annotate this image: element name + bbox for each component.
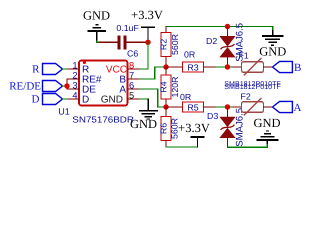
fuse F2 — [233, 91, 273, 115]
diode D2 TVS — [206, 23, 246, 65]
svg-text:F2: F2 — [241, 91, 251, 101]
node D2 top junction dot — [225, 24, 230, 29]
svg-text:0.1uF: 0.1uF — [116, 23, 139, 33]
svg-text:GND: GND — [130, 117, 157, 131]
node RE/DE junction dot — [64, 83, 69, 88]
wire top GND rail — [166, 26, 273, 28]
svg-text:120R: 120R — [170, 76, 180, 97]
pin 3 — [67, 81, 79, 91]
svg-text:0R: 0R — [180, 92, 191, 102]
pin 8 — [128, 61, 140, 71]
resistor R6 — [158, 107, 179, 147]
svg-text:5: 5 — [129, 91, 134, 101]
fuse F2 part number SMB1812P010TF (double print) — [224, 84, 280, 91]
svg-text:R6: R6 — [158, 123, 168, 134]
wire pin 5 to ground — [140, 98, 149, 100]
port RE/DE — [9, 81, 62, 93]
svg-text:B: B — [294, 62, 301, 74]
svg-text:2: 2 — [72, 71, 77, 81]
wire R5 to D3 node — [216, 106, 233, 108]
wire R6 to +3.3V bottom — [166, 146, 198, 148]
node B junction dot — [163, 64, 168, 69]
resistor R5 — [166, 92, 216, 112]
diode D3 TVS — [207, 107, 246, 147]
node +3.3V junction dot — [145, 40, 150, 45]
wire R3 to D2 node — [216, 66, 233, 68]
resistor R2 — [158, 27, 180, 65]
svg-text:1: 1 — [72, 61, 77, 71]
svg-text:SMAJ6.5: SMAJ6.5 — [235, 108, 246, 147]
svg-text:R: R — [32, 64, 40, 76]
node D3 top junction dot — [225, 104, 230, 109]
wire GND to C6 to +3.3V junction — [97, 41, 148, 42]
svg-text:GND: GND — [253, 116, 280, 130]
wire pin 6 to A line — [140, 89, 164, 107]
power +3.3V bottom symbol — [178, 121, 210, 147]
svg-text:D2: D2 — [206, 36, 217, 46]
svg-text:U1: U1 — [58, 106, 70, 116]
svg-text:4: 4 — [72, 91, 77, 101]
pin 2 — [67, 71, 79, 81]
op-amp U1 SN75176BDR body — [58, 61, 134, 125]
port A — [273, 101, 302, 113]
wire pin 7 to B line — [140, 67, 164, 79]
wire port R to pin 1 — [63, 68, 68, 70]
svg-text:8: 8 — [129, 61, 134, 71]
capacitor C6 — [116, 23, 139, 59]
svg-text:R3: R3 — [187, 63, 198, 73]
pin 7 — [128, 71, 140, 81]
svg-text:SMB1812P010TF: SMB1812P010TF — [224, 84, 280, 91]
wire port D to pin 4 — [63, 98, 68, 100]
node A junction dot — [163, 104, 168, 109]
wire VCC to pin 8 — [140, 42, 149, 69]
ground GND top-right — [259, 27, 286, 59]
svg-text:GND: GND — [259, 45, 286, 59]
svg-text:+3.3V: +3.3V — [178, 121, 210, 135]
svg-text:R2: R2 — [158, 39, 168, 50]
resistor R4 — [158, 67, 180, 107]
svg-text:SN75176BDR: SN75176BDR — [72, 115, 134, 125]
power +3.3V top symbol — [131, 8, 163, 43]
svg-text:D: D — [32, 94, 40, 106]
pin 4 — [67, 91, 79, 101]
wire port RE/DE to pins 2,3 — [63, 79, 68, 89]
port R — [32, 64, 62, 76]
port B — [273, 61, 302, 73]
node D2 bottom junction dot — [225, 64, 230, 69]
svg-text:R5: R5 — [187, 103, 198, 113]
svg-text:3: 3 — [72, 81, 77, 91]
svg-text:A: A — [294, 102, 302, 114]
ground GND top-left power symbol — [83, 9, 110, 41]
svg-text:0R: 0R — [184, 50, 195, 60]
svg-text:F1: F1 — [239, 50, 249, 60]
wire D3 to bottom-right ground — [228, 143, 268, 147]
svg-text:R4: R4 — [158, 81, 168, 92]
pin 1 — [67, 61, 79, 71]
port D — [32, 94, 63, 106]
svg-text:GND: GND — [101, 95, 123, 106]
svg-text:RE/DE: RE/DE — [9, 81, 41, 93]
ground GND at pin 5 — [130, 99, 158, 131]
svg-text:C6: C6 — [127, 49, 138, 59]
svg-text:6: 6 — [129, 81, 134, 91]
svg-text:GND: GND — [83, 9, 110, 23]
svg-text:7: 7 — [129, 71, 134, 81]
svg-text:D: D — [82, 95, 89, 106]
ground GND bottom-right (inverted) — [253, 116, 280, 144]
resistor R3 — [166, 50, 216, 73]
pin 6 — [128, 81, 140, 91]
pin 5 — [128, 91, 140, 101]
fuse F1 — [233, 50, 273, 75]
fuse F1 part number SMB1812P010TF (double print) — [224, 81, 280, 88]
svg-text:+3.3V: +3.3V — [131, 8, 163, 22]
svg-text:560R: 560R — [170, 34, 180, 55]
svg-text:D3: D3 — [207, 111, 218, 121]
